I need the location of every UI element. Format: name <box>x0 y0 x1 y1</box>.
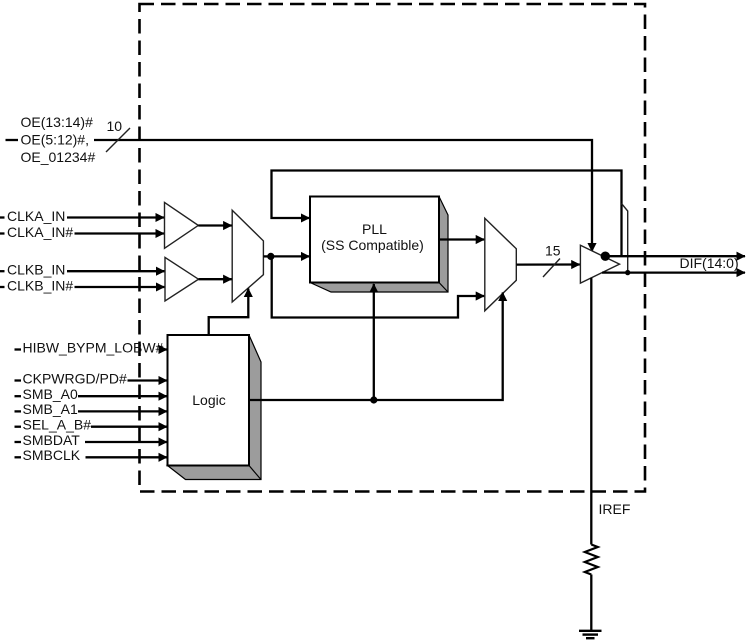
resistor R1 <box>585 545 598 575</box>
pin stub SMBDAT <box>15 441 22 443</box>
svg-text:SMBCLK: SMBCLK <box>23 447 81 463</box>
svg-text:OE(13:14)#: OE(13:14)# <box>21 114 94 130</box>
wire junction to PLL control input (bottom) <box>373 284 375 400</box>
pin stub SMB_A0 <box>15 395 22 397</box>
wire CLKB_IN <box>67 270 165 272</box>
wire buffer A to mux M1 <box>198 224 231 226</box>
wire IREF from buffer to resistor <box>590 278 592 545</box>
pin stub SMBCLK <box>15 456 22 458</box>
ground <box>579 631 602 638</box>
wire SMB_A1 to Logic <box>78 410 167 412</box>
pin stub CLKB_IN <box>0 270 5 272</box>
wire DIF complement output <box>602 271 745 273</box>
wire SMB_A0 to Logic <box>78 395 167 397</box>
wire node A bypass path to mux M2 lower input <box>272 256 485 317</box>
chip boundary (dashed) <box>140 4 646 492</box>
node A junction dot <box>267 253 274 260</box>
wire CLKA_IN <box>67 216 164 218</box>
wire PLL output to mux M2 upper input <box>439 238 484 240</box>
output buffer (triangle) <box>580 245 619 283</box>
wire HIBW to Logic <box>164 348 168 350</box>
svg-text:CLKB_IN#: CLKB_IN# <box>7 277 73 293</box>
svg-text:10: 10 <box>107 118 123 134</box>
pin stub SEL_A_B# <box>15 426 22 428</box>
wire node A to PLL ref input <box>271 255 310 257</box>
svg-text:OE(5:12)#,: OE(5:12)#, <box>21 132 89 148</box>
input mux M1 (trapezoid) <box>232 210 263 302</box>
wire Logic to mux M1 select <box>209 289 249 336</box>
pin stub HIBW <box>15 348 22 350</box>
wire mux M2 output to output buffer <box>516 263 580 265</box>
input buffer B (triangle) <box>165 257 199 301</box>
wire resistor to ground <box>590 575 592 631</box>
svg-text:CLKB_IN: CLKB_IN <box>7 262 65 278</box>
svg-text:OE_01234#: OE_01234# <box>21 149 96 165</box>
svg-text:Logic: Logic <box>192 392 225 408</box>
junction dot on Logic select line <box>370 396 377 403</box>
pin stub CLKA_IN <box>0 216 5 218</box>
wire SEL_A_B# to Logic <box>91 426 167 428</box>
wire buffer B to mux M1 <box>199 278 232 280</box>
pin stub CLKA_IN# <box>0 232 5 234</box>
wire DIF true output <box>605 255 745 257</box>
input buffer A (triangle) <box>165 202 199 248</box>
pin stub CKPWRGD <box>15 379 22 381</box>
wire SMBDAT to Logic <box>85 441 167 443</box>
wire Logic select output <box>249 293 503 401</box>
label OE(13:14)# / OE(5:12)#, / OE_01234# <box>21 114 96 165</box>
bus slash 10 <box>106 128 130 152</box>
wire PLL feedback from output line to PLL fb input <box>272 171 622 256</box>
Logic box shadow <box>168 335 262 480</box>
PLL box shadow <box>310 197 448 293</box>
wire CLKA_IN# <box>75 232 165 234</box>
pin stub CLKB_IN# <box>0 286 5 288</box>
Logic box U2 <box>168 335 250 466</box>
wire CKPWRGD to Logic <box>128 379 168 381</box>
svg-text:SEL_A_B#: SEL_A_B# <box>23 417 92 433</box>
svg-text:PLL: PLL <box>362 221 387 237</box>
pin stub SMB_A1 <box>15 410 22 412</box>
wire CLKB_IN# <box>75 286 165 288</box>
wire mux M1 output to node A <box>263 255 271 257</box>
svg-text:SMB_A1: SMB_A1 <box>23 401 78 417</box>
junction dot on complement output <box>625 270 630 275</box>
svg-text:DIF(14:0): DIF(14:0) <box>680 255 739 271</box>
svg-text:CKPWRGD/PD#: CKPWRGD/PD# <box>23 370 127 386</box>
svg-text:SMB_A0: SMB_A0 <box>23 386 78 402</box>
svg-text:HIBW_BYPM_LOBW#: HIBW_BYPM_LOBW# <box>23 339 164 355</box>
wire SMBCLK to Logic <box>86 456 168 458</box>
wire OE bus to output buffer <box>94 140 592 252</box>
bus slash 15 <box>543 259 560 278</box>
output mux M2 (trapezoid) <box>485 218 517 310</box>
PLL box U1 <box>310 197 439 283</box>
svg-text:IREF: IREF <box>599 501 631 517</box>
svg-text:15: 15 <box>545 243 561 259</box>
svg-text:CLKA_IN#: CLKA_IN# <box>7 224 73 240</box>
svg-text:SMBDAT: SMBDAT <box>23 432 81 448</box>
node dot on buffer output <box>601 252 610 261</box>
pin stub OE <box>6 139 19 141</box>
output buffer bank back shape <box>622 204 628 273</box>
svg-text:CLKA_IN: CLKA_IN <box>7 208 65 224</box>
svg-text:(SS Compatible): (SS Compatible) <box>321 237 424 253</box>
